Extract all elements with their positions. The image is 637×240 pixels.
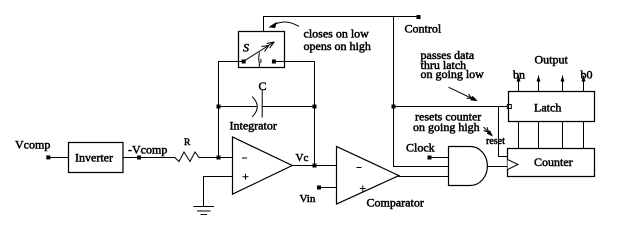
counter box bbox=[508, 149, 595, 177]
wire switch top vertical bbox=[263, 17, 265, 32]
svg-text:Integrator: Integrator bbox=[230, 118, 277, 132]
wire stub from right contact bbox=[276, 61, 285, 63]
node Control terminal bbox=[417, 15, 421, 19]
capacitor C straight plate bbox=[261, 91, 263, 118]
comparator plus input mark bbox=[360, 186, 365, 191]
node -Vcomp bbox=[137, 156, 141, 160]
op-amp comparator triangle bbox=[337, 147, 399, 205]
switch contact right bbox=[272, 60, 276, 64]
label Vcomp bbox=[15, 137, 50, 151]
svg-text:Clock: Clock bbox=[406, 140, 435, 154]
bus line b2 bbox=[538, 122, 540, 149]
node integrator summing junction bbox=[217, 156, 221, 160]
output arrow b1 bbox=[561, 76, 565, 92]
wire reset horizontal bbox=[394, 106, 508, 108]
counter clock edge triangle bbox=[508, 160, 519, 170]
svg-text:Comparator: Comparator bbox=[367, 195, 424, 209]
bus line b0 bbox=[583, 122, 585, 149]
annotation opens on high bbox=[304, 39, 371, 53]
annotation on going high bbox=[413, 120, 480, 134]
wire integrator plus input bbox=[204, 177, 233, 207]
label R bbox=[184, 138, 191, 148]
svg-text:R: R bbox=[184, 138, 191, 148]
output arrow b2 bbox=[537, 76, 541, 92]
wire reset vertical to counter bbox=[499, 107, 508, 157]
label Output bbox=[535, 53, 569, 67]
wire feedback left vertical bbox=[218, 62, 220, 158]
capacitor C curved plate bbox=[253, 97, 258, 117]
wire to switch left bbox=[219, 61, 239, 63]
switch actuator squiggle bbox=[259, 53, 261, 67]
latch box bbox=[509, 92, 595, 122]
svg-text:Control: Control bbox=[405, 21, 442, 35]
svg-text:b0: b0 bbox=[581, 68, 593, 82]
svg-text:reset: reset bbox=[486, 136, 505, 147]
annotation thru latch bbox=[421, 58, 467, 72]
integrator plus input mark bbox=[243, 174, 248, 179]
wire feedback right vertical bbox=[314, 62, 316, 166]
wire switch right to right vertical bbox=[285, 61, 315, 63]
label b0 bbox=[581, 68, 593, 82]
annotation on going low bbox=[421, 67, 485, 81]
svg-text:on going high: on going high bbox=[413, 120, 480, 134]
annotation closes on low bbox=[304, 27, 370, 41]
latch enable open square bbox=[507, 105, 511, 109]
wire clock to AND gate bbox=[432, 157, 449, 159]
output arrow bn bbox=[517, 76, 521, 92]
svg-text:Counter: Counter bbox=[534, 155, 573, 169]
wire control vertical bbox=[393, 17, 395, 167]
annotation arrow to switch bbox=[269, 22, 298, 28]
wire AND output to counter bbox=[487, 166, 507, 168]
bus line b1 bbox=[562, 122, 564, 149]
svg-text:opens on high: opens on high bbox=[304, 39, 371, 53]
wire Vcomp to inverter bbox=[50, 157, 69, 159]
node Vc junction bbox=[313, 164, 317, 168]
wire stub to left contact bbox=[239, 61, 243, 63]
label -Vcomp bbox=[128, 142, 167, 156]
label S bbox=[243, 41, 249, 55]
node reset junction bbox=[392, 105, 396, 109]
node cap right junction bbox=[313, 105, 317, 109]
svg-text:Inverter: Inverter bbox=[75, 151, 113, 165]
inverter box U1 bbox=[69, 143, 124, 173]
node Vin terminal bbox=[317, 186, 321, 190]
svg-text:S: S bbox=[243, 41, 249, 55]
annotation arrow to reset bbox=[484, 127, 493, 136]
node cap left junction bbox=[217, 105, 221, 109]
svg-text:Output: Output bbox=[535, 53, 569, 67]
wire cap right bbox=[262, 106, 314, 108]
switch S box bbox=[239, 32, 285, 68]
output arrow b0 bbox=[582, 76, 586, 92]
wire control to AND gate bbox=[394, 166, 449, 168]
annotation arrow to latch enable bbox=[449, 87, 477, 100]
svg-text:Vcomp: Vcomp bbox=[15, 137, 50, 151]
ground bbox=[194, 207, 214, 215]
label Vc bbox=[296, 152, 309, 164]
label Control bbox=[405, 21, 442, 35]
AND gate U2 bbox=[449, 147, 488, 186]
wire R to integrator input bbox=[199, 157, 233, 159]
wire integrator output Vc bbox=[292, 165, 336, 167]
annotation resets counter bbox=[415, 110, 481, 124]
wire control horizontal bbox=[264, 16, 418, 18]
label Vin bbox=[300, 193, 316, 205]
label C bbox=[259, 79, 267, 93]
svg-text:C: C bbox=[259, 79, 267, 93]
label Comparator bbox=[367, 195, 424, 209]
resistor R bbox=[175, 152, 199, 162]
label reset bbox=[486, 136, 505, 147]
label bn bbox=[513, 68, 525, 82]
label Clock bbox=[406, 140, 435, 154]
bus line b3 bbox=[518, 122, 520, 149]
svg-text:Vc: Vc bbox=[296, 152, 309, 164]
svg-text:bn: bn bbox=[513, 68, 525, 82]
wire Vin to comparator bbox=[321, 187, 337, 189]
switch contact left bbox=[242, 60, 246, 64]
label Integrator bbox=[230, 118, 277, 132]
wire cap left bbox=[219, 106, 257, 108]
comparator minus input mark bbox=[357, 167, 361, 169]
svg-text:on going low: on going low bbox=[421, 67, 485, 81]
wire comparator output bbox=[399, 176, 449, 178]
annotation passes data bbox=[421, 48, 475, 62]
svg-text:Latch: Latch bbox=[534, 100, 561, 114]
op-amp integrator triangle bbox=[233, 137, 293, 194]
node Vcomp input terminal bbox=[46, 155, 50, 159]
wire inverter output bbox=[123, 157, 175, 159]
integrator minus input mark bbox=[243, 157, 247, 159]
node Clock terminal bbox=[428, 156, 432, 160]
switch arm with arrow bbox=[244, 42, 274, 61]
svg-text:Vin: Vin bbox=[300, 193, 316, 205]
svg-text:-Vcomp: -Vcomp bbox=[128, 142, 167, 156]
